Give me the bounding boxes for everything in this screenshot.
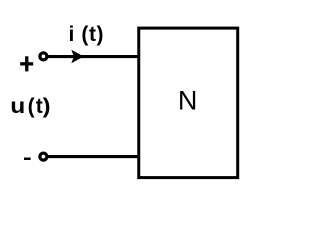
svg-text:): ) [43,94,51,117]
label u (t) [10,94,50,118]
network box N [139,28,238,178]
svg-text:N: N [178,86,198,116]
svg-text:u: u [10,94,25,118]
svg-text:(t: (t [28,95,44,118]
polarity minus [24,158,31,161]
current arrow on top wire [71,50,84,63]
terminal circle bottom [40,153,47,160]
polarity plus [20,56,33,71]
wire bottom (negative lead) [46,155,138,158]
terminal circle top [40,53,47,60]
wire top (positive lead) [46,55,138,58]
svg-text:i (t): i (t) [69,23,105,46]
